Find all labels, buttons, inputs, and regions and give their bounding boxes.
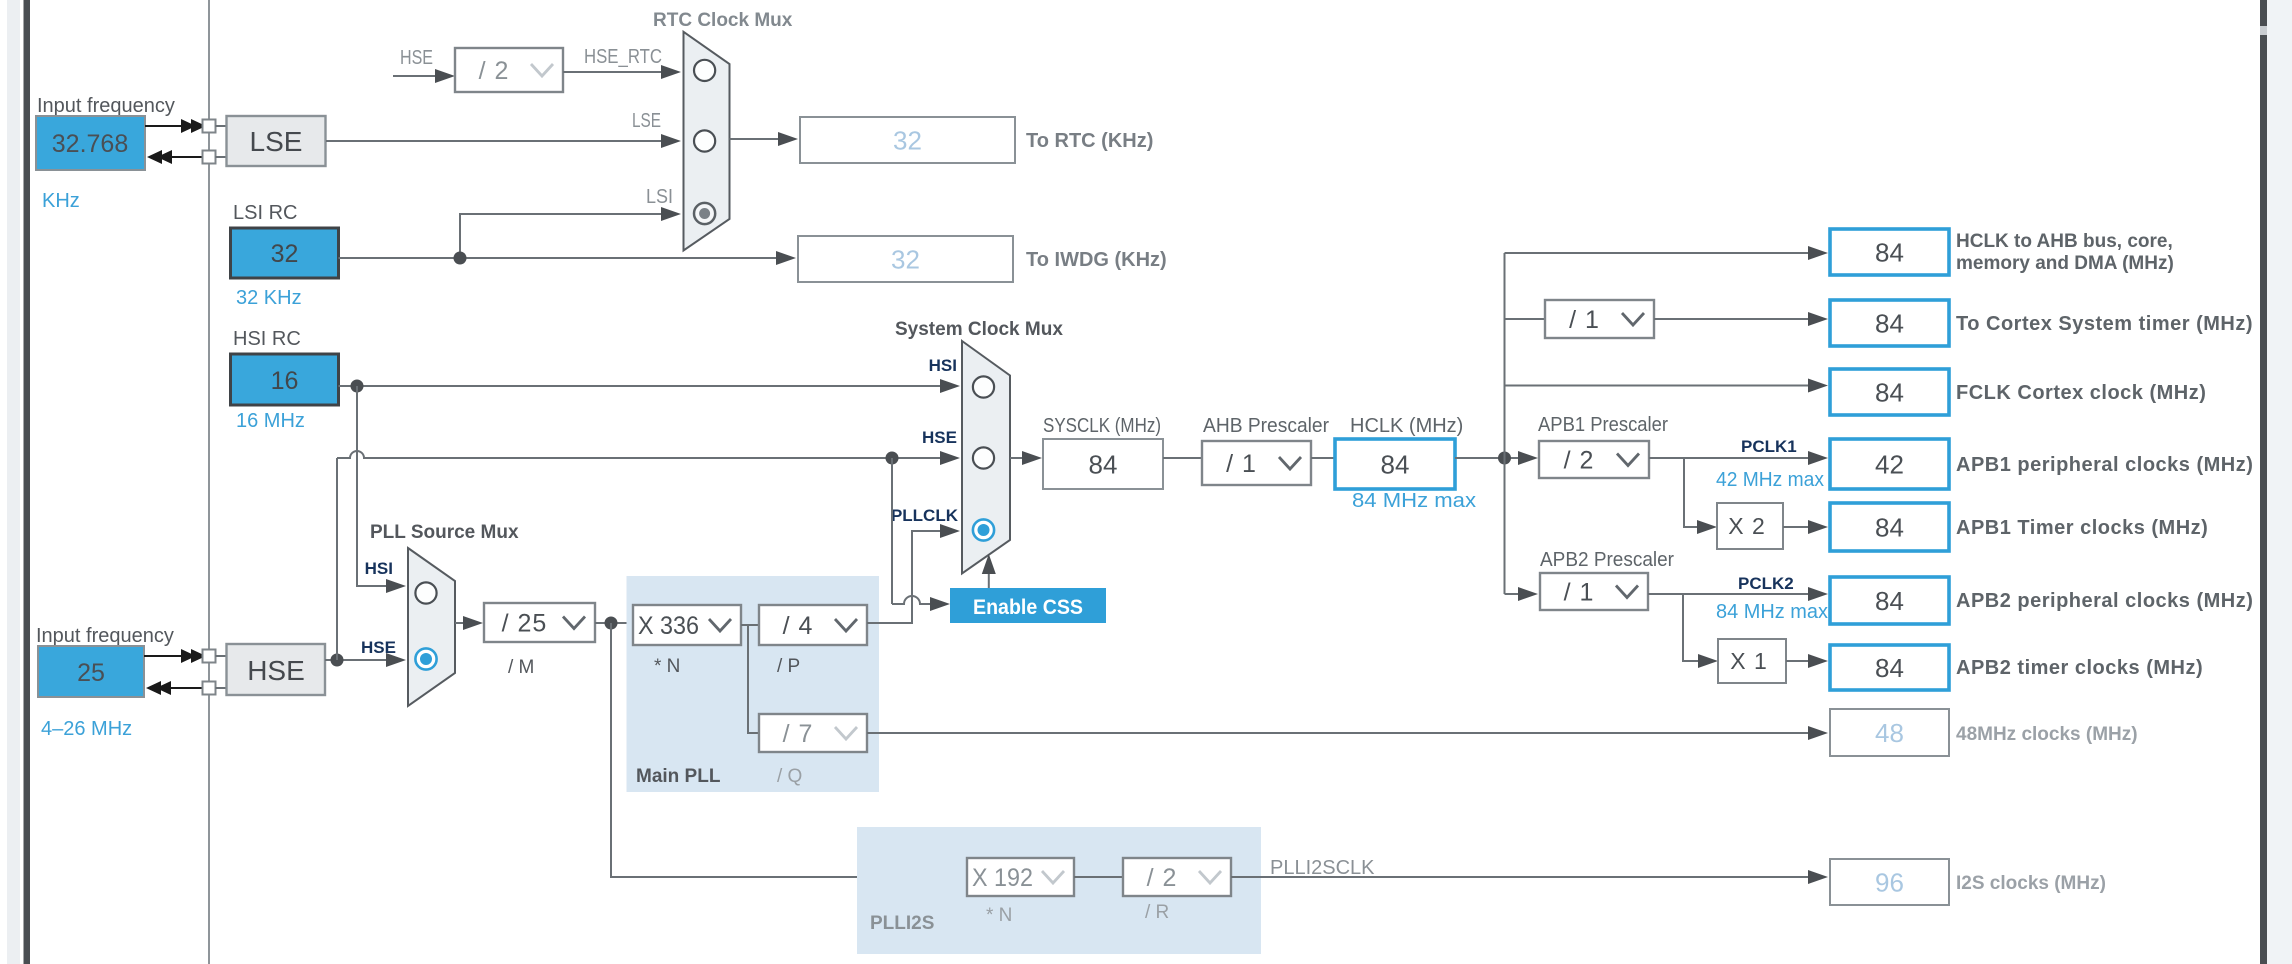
label Input frequency (HSE) (36, 625, 174, 647)
left panel light strip (7, 0, 20, 964)
oscillator LSE box (227, 116, 326, 166)
radio PLL HSI input (415, 582, 436, 603)
title PLL Source Mux (370, 522, 519, 543)
label HSE (sys) (922, 428, 957, 447)
input frequency box 32.768 KHz (36, 116, 145, 170)
svg-text:I2S clocks (MHz): I2S clocks (MHz) (1956, 873, 2106, 894)
mux System Clock Mux body (962, 341, 1010, 574)
stub wires squares to LSE box (216, 126, 228, 157)
wire riser to PLLI2S (611, 623, 967, 877)
svg-text:/ 7: / 7 (783, 720, 814, 748)
label KHz (42, 190, 80, 212)
wire /M to PLL N multiplier (595, 617, 633, 630)
wire HCLK to bus junction (1455, 451, 1538, 465)
svg-text:LSE: LSE (632, 110, 661, 132)
divider /Q (/ 7) (759, 714, 867, 752)
svg-text:/ 2: / 2 (1147, 864, 1178, 892)
oscillator HSI RC box 16 (231, 354, 339, 405)
wire SYSCLK to AHB prescaler (1163, 457, 1202, 459)
label 4-26 MHz (41, 718, 132, 740)
label 16 MHz (236, 410, 305, 432)
divider /P (/ 4) (759, 605, 867, 645)
divider APB1 prescaler (/ 2) (1539, 441, 1649, 478)
svg-text:APB2 timer clocks (MHz): APB2 timer clocks (MHz) (1956, 657, 2203, 679)
svg-text:42 MHz max: 42 MHz max (1716, 469, 1824, 491)
svg-text:HSI: HSI (929, 356, 957, 375)
label LSE (wire) (632, 110, 661, 132)
label HSI (pll) (365, 559, 393, 578)
svg-text:HCLK to AHB bus, core,: HCLK to AHB bus, core, (1956, 231, 2173, 252)
wire X192 to /R (1074, 876, 1123, 878)
label APB2 peripheral clocks (MHz) (1956, 590, 2253, 612)
label HSI (sys) (929, 356, 957, 375)
svg-text:84: 84 (1381, 450, 1410, 480)
svg-text:HSE: HSE (247, 655, 305, 686)
svg-text:/ 25: / 25 (502, 610, 548, 638)
svg-text:84: 84 (1875, 586, 1904, 616)
input frequency box 25 MHz (38, 646, 144, 697)
label AHB Prescaler (1203, 415, 1329, 437)
svg-text:X 2: X 2 (1728, 513, 1766, 539)
radio HSE input (sys) (973, 447, 994, 468)
label PLLI2SCLK (1270, 857, 1375, 879)
wire bus to FCLK output (1505, 379, 1829, 393)
node square HSE out (203, 650, 216, 663)
svg-text:LSI RC: LSI RC (233, 202, 297, 224)
output box To IWDG (798, 236, 1013, 282)
svg-text:84: 84 (1089, 450, 1118, 480)
svg-text:APB1 peripheral clocks (MHz): APB1 peripheral clocks (MHz) (1956, 454, 2253, 476)
label HCLK to AHB bus core memory and DMA (MHz) (1956, 231, 2174, 274)
svg-text:32.768: 32.768 (52, 130, 128, 158)
svg-text:42: 42 (1875, 450, 1904, 480)
svg-text:HSE_RTC: HSE_RTC (584, 46, 662, 68)
svg-text:PCLK2: PCLK2 (1738, 574, 1794, 593)
label / M (508, 657, 534, 678)
svg-text:AHB Prescaler: AHB Prescaler (1203, 415, 1329, 437)
panel Main PLL background (627, 576, 880, 792)
svg-text:PCLK1: PCLK1 (1741, 437, 1797, 456)
svg-text:HSI RC: HSI RC (233, 328, 301, 350)
value box HCLK 84 (1335, 439, 1455, 489)
svg-text:To IWDG (KHz): To IWDG (KHz) (1026, 249, 1167, 271)
svg-text:KHz: KHz (42, 190, 80, 212)
wire HSE node to input (left arrows) (146, 681, 209, 695)
label HSE (rtc stub) (400, 47, 433, 69)
left panel dark divider bar (24, 0, 31, 964)
svg-text:84: 84 (1875, 653, 1904, 683)
svg-text:PLL Source Mux: PLL Source Mux (370, 522, 519, 543)
svg-text:* N: * N (654, 656, 680, 677)
wire N to P divider (741, 625, 759, 733)
svg-text:PLLCLK: PLLCLK (891, 506, 959, 525)
label / P (777, 656, 800, 677)
label LSI (wire) (646, 186, 673, 208)
label / R (1145, 902, 1169, 923)
svg-text:84: 84 (1875, 238, 1904, 268)
label 84 MHz max (apb2) (1716, 601, 1828, 623)
node square LSE in (203, 151, 216, 164)
radio LSI input (selected) (694, 203, 715, 224)
svg-text:32 KHz: 32 KHz (236, 287, 302, 309)
svg-text:LSI: LSI (646, 186, 673, 208)
value box SYSCLK 84 (1043, 439, 1163, 489)
wire PLL mux output to /M (455, 616, 483, 630)
title Main PLL (636, 766, 721, 787)
label APB1 Prescaler (1538, 414, 1668, 436)
svg-text:/ 4: / 4 (783, 612, 814, 640)
wire PLLI2SCLK to I2S output (1231, 870, 1828, 884)
wire cortex prescaler to output (1654, 312, 1828, 326)
svg-text:FCLK Cortex clock (MHz): FCLK Cortex clock (MHz) (1956, 382, 2206, 404)
wire /2 to RTC mux (563, 65, 681, 79)
label APB1 Timer clocks (MHz) (1956, 517, 2208, 539)
svg-text:48: 48 (1875, 718, 1904, 748)
label / Q (777, 766, 802, 787)
divider PLLI2S /R (/ 2) (1123, 858, 1231, 896)
label 48MHz clocks (MHz) (1956, 724, 2138, 745)
label FCLK Cortex clock (MHz) (1956, 382, 2206, 404)
label HSE_RTC (584, 46, 662, 68)
svg-text:/ 1: / 1 (1564, 579, 1595, 607)
wire Enable CSS to mux (up arrow) (982, 554, 996, 588)
svg-text:RTC Clock Mux: RTC Clock Mux (653, 10, 793, 31)
svg-text:84 MHz max: 84 MHz max (1716, 601, 1828, 623)
label HCLK (MHz) (1350, 415, 1463, 437)
wire X2 to APB1 timer output (1783, 520, 1828, 534)
wire /P output to PLLCLK input (867, 524, 960, 623)
divider AHB prescaler (/ 1) (1202, 441, 1311, 485)
svg-text:HSI: HSI (365, 559, 393, 578)
wire HSE stub into /2 divider (393, 69, 455, 83)
svg-text:APB2 peripheral clocks (MHz): APB2 peripheral clocks (MHz) (1956, 590, 2253, 612)
oscillator LSI RC box 32 (231, 228, 339, 278)
divider Cortex prescaler (/ 1) (1545, 300, 1654, 338)
svg-text:/ 1: / 1 (1569, 306, 1600, 334)
radio PLL HSE input (selected) (415, 648, 436, 669)
title PLLI2S (870, 913, 934, 934)
label APB1 peripheral clocks (MHz) (1956, 454, 2253, 476)
value box APB2 peripheral 84 (1830, 577, 1949, 624)
wire HSI riser to PLL source mux (357, 386, 406, 593)
wire HSE to PLL source mux (325, 653, 406, 667)
svg-text:X 336: X 336 (638, 612, 699, 640)
label PCLK1 (1741, 437, 1797, 456)
label 32 KHz (236, 287, 302, 309)
wire APB1 branch to X2 (1684, 458, 1717, 534)
label APB2 timer clocks (MHz) (1956, 657, 2203, 679)
svg-text:32: 32 (893, 126, 922, 156)
divider /M (/ 25) (484, 603, 595, 642)
svg-text:APB1 Prescaler: APB1 Prescaler (1538, 414, 1668, 436)
value box APB1 timer 84 (1830, 503, 1949, 551)
svg-text:/ 1: / 1 (1226, 450, 1257, 478)
svg-text:Input frequency: Input frequency (36, 625, 174, 647)
label APB2 Prescaler (1540, 549, 1674, 571)
wire system mux output to SYSCLK (1010, 451, 1042, 465)
multiplier X1 (1718, 639, 1786, 683)
svg-text:SYSCLK (MHz): SYSCLK (MHz) (1043, 415, 1161, 437)
svg-text:84: 84 (1875, 309, 1904, 339)
svg-text:APB1 Timer clocks (MHz): APB1 Timer clocks (MHz) (1956, 517, 2208, 539)
svg-text:PLLI2S: PLLI2S (870, 913, 934, 934)
svg-text:84 MHz max: 84 MHz max (1352, 490, 1476, 512)
svg-text:84: 84 (1875, 378, 1904, 408)
label PLLCLK (891, 506, 959, 525)
label To IWDG (KHz) (1026, 249, 1167, 271)
node square HSE in (203, 682, 216, 695)
right light strip (2267, 0, 2292, 964)
stub wires squares to HSE box (216, 656, 228, 688)
right bar notch (2260, 26, 2267, 35)
title RTC Clock Mux (653, 10, 793, 31)
label To RTC (KHz) (1026, 130, 1153, 152)
svg-text:4–26 MHz: 4–26 MHz (41, 718, 132, 740)
oscillator HSE box (227, 644, 326, 695)
wire bus to cortex prescaler (1505, 318, 1546, 320)
wire HSE riser to system clock mux (with hop) (337, 451, 960, 660)
label PCLK2 (1738, 574, 1794, 593)
node square LSE out (203, 120, 216, 133)
svg-text:HSE: HSE (922, 428, 957, 447)
right dark divider bar (2260, 0, 2267, 964)
value box 48MHz clocks (1830, 709, 1949, 756)
multiplier *N (X 336) (633, 605, 741, 645)
mux PLL Source Mux body (408, 548, 455, 706)
label * N (main pll) (654, 656, 680, 677)
mux RTC Clock Mux body (684, 32, 730, 251)
label LSI RC (233, 202, 297, 224)
svg-text:/ Q: / Q (777, 766, 802, 787)
svg-text:* N: * N (986, 905, 1012, 926)
svg-text:APB2 Prescaler: APB2 Prescaler (1540, 549, 1674, 571)
wire bus to APB2 prescaler (1505, 587, 1539, 601)
output box To RTC (800, 117, 1015, 163)
wire RTC mux output (730, 132, 799, 146)
label 84 MHz max (hclk) (1352, 490, 1476, 512)
wire HCLK vertical bus (1504, 253, 1506, 594)
svg-text:Main PLL: Main PLL (636, 766, 721, 787)
label To Cortex System timer (MHz) (1956, 313, 2253, 335)
svg-text:32: 32 (271, 240, 299, 268)
svg-text:Enable CSS: Enable CSS (973, 596, 1083, 619)
wire X1 to APB2 timer output (1786, 654, 1828, 668)
svg-text:16 MHz: 16 MHz (236, 410, 305, 432)
value box Cortex timer 84 (1830, 300, 1949, 346)
svg-text:To RTC (KHz): To RTC (KHz) (1026, 130, 1153, 152)
svg-text:memory and DMA (MHz): memory and DMA (MHz) (1956, 253, 2174, 274)
radio HSI input (sys) (973, 376, 994, 397)
svg-text:HSE: HSE (400, 47, 433, 69)
svg-text:/ 2: / 2 (1564, 447, 1595, 475)
wire APB2 prescaler to PCLK2 output (1648, 587, 1828, 601)
radio PLLCLK input (selected) (973, 519, 994, 540)
title System Clock Mux (895, 319, 1063, 340)
svg-text:/ R: / R (1145, 902, 1169, 923)
svg-text:X 1: X 1 (1730, 648, 1768, 674)
wire bus to HCLK AHB output (1505, 246, 1829, 260)
svg-text:PLLI2SCLK: PLLI2SCLK (1270, 857, 1375, 879)
label I2S clocks (MHz) (1956, 873, 2106, 894)
svg-text:25: 25 (77, 659, 105, 687)
wire Enable CSS tap (with hop) (892, 458, 950, 611)
svg-text:HSE: HSE (361, 638, 396, 657)
label SYSCLK (MHz) (1043, 415, 1161, 437)
value box I2S clocks 96 (1830, 859, 1949, 905)
svg-text:System Clock Mux: System Clock Mux (895, 319, 1063, 340)
radio HSE_RTC input (694, 60, 715, 81)
radio LSE input (694, 130, 715, 151)
wire LSE node to input (left arrows) (147, 150, 209, 164)
value box APB2 timer 84 (1830, 645, 1949, 690)
panel PLLI2S background (857, 827, 1261, 954)
svg-text:/ 2: / 2 (479, 57, 510, 85)
wire input to HSE node (right arrows) (144, 649, 206, 663)
multiplier X2 (1717, 503, 1783, 549)
svg-text:16: 16 (271, 367, 299, 395)
value box APB1 peripheral 42 (1830, 439, 1949, 489)
divider /2 (HSE RTC) (455, 48, 563, 92)
label HSI RC (233, 328, 301, 350)
value box HCLK to AHB 84 (1830, 229, 1949, 275)
svg-text:/ P: / P (777, 656, 800, 677)
svg-text:32: 32 (891, 245, 920, 275)
wire LSI to IWDG (339, 251, 797, 265)
svg-text:Input frequency: Input frequency (37, 95, 175, 117)
divider APB2 prescaler (/ 1) (1540, 573, 1648, 610)
wire input to LSE node (right arrows) (145, 119, 206, 133)
label * N (plli2s) (986, 905, 1012, 926)
svg-text:96: 96 (1875, 868, 1904, 898)
label 42 MHz max (1716, 469, 1824, 491)
svg-text:48MHz clocks (MHz): 48MHz clocks (MHz) (1956, 724, 2138, 745)
multiplier PLLI2S *N (X 192) (967, 858, 1074, 896)
value box FCLK 84 (1830, 369, 1949, 415)
svg-text:84: 84 (1875, 513, 1904, 543)
svg-text:LSE: LSE (250, 126, 303, 157)
wire APB1 prescaler to PCLK1 output (1649, 451, 1828, 465)
canvas left vertical boundary line (208, 0, 210, 964)
label HSE (pll) (361, 638, 396, 657)
wire AHB prescaler to HCLK (1311, 457, 1335, 459)
wire LSE to RTC mux (326, 134, 681, 148)
svg-text:To Cortex System timer (MHz): To Cortex System timer (MHz) (1956, 313, 2253, 335)
button Enable CSS (950, 588, 1106, 623)
svg-text:HCLK (MHz): HCLK (MHz) (1350, 415, 1463, 437)
wire /Q output to 48MHz box (867, 726, 1828, 740)
wire HSI to system clock mux (339, 379, 961, 393)
wire LSI branch to RTC mux (460, 207, 681, 258)
svg-text:X 192: X 192 (972, 864, 1033, 892)
svg-text:/ M: / M (508, 657, 534, 678)
label Input frequency (LSE) (37, 95, 175, 117)
wire APB2 branch to X1 (1683, 594, 1718, 668)
